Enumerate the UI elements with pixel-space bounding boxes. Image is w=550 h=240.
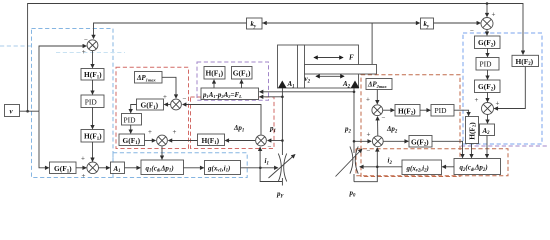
svg-text:+: + — [82, 48, 86, 56]
block G(F1) mid upper — [137, 99, 164, 111]
cylinder rod — [305, 65, 377, 75]
block PID left — [81, 95, 104, 108]
svg-text:+: + — [173, 128, 177, 136]
svg-text:+: + — [475, 96, 479, 104]
gain block k_y right — [421, 18, 434, 29]
svg-text:H(F2): H(F2) — [516, 57, 534, 67]
summing junction 6 top right — [481, 18, 493, 30]
node v split dot — [26, 110, 29, 113]
node i2 crossing dot — [376, 166, 379, 169]
block G(F2) right1 — [475, 36, 501, 49]
wire valve2 down stub — [353, 174, 355, 182]
wire junction7 to A2 — [487, 115, 489, 124]
valve 1 symbol arcs — [278, 154, 281, 182]
dashed subsystem box blue right column — [463, 33, 542, 144]
svg-text:+: + — [367, 130, 371, 138]
node p1 FL tap dot — [281, 96, 284, 99]
svg-text:+: + — [366, 96, 370, 104]
block A1 — [111, 162, 125, 174]
svg-text:H(F2): H(F2) — [398, 106, 416, 116]
summing junction 4 — [157, 135, 168, 146]
svg-text:H(F1): H(F1) — [84, 70, 102, 80]
svg-text:+: + — [492, 11, 496, 19]
wire dP1max to junction 3 — [162, 77, 176, 98]
svg-text:H(F1): H(F1) — [84, 132, 102, 142]
block load force equation — [201, 88, 259, 100]
svg-text:H(F1): H(F1) — [202, 136, 220, 146]
wire junction5 to H(F1) mid — [225, 140, 255, 142]
block A2 — [480, 124, 495, 136]
dashed subsystem box red right bottom (flow q2) — [356, 149, 508, 176]
wire A1 to q1 — [125, 167, 141, 169]
block H(F1) mid — [198, 134, 225, 146]
dashed remnant line left edge — [0, 45, 32, 47]
svg-text:−: − — [470, 27, 474, 35]
wire dP2max to junction 8 — [376, 90, 378, 104]
wire PID to H(F1) lower — [92, 108, 94, 129]
valve 2 arrow — [336, 149, 363, 177]
dashed subsystem box red right (pressure loop 2) — [361, 75, 460, 177]
svg-text:G(F2): G(F2) — [411, 137, 429, 147]
wire A2 to q2 — [486, 136, 488, 158]
wire junction9 up to junction8 — [377, 117, 379, 136]
wire PID to G(F2) lower right col — [487, 70, 489, 79]
dashed remnant line inner — [56, 52, 125, 54]
wire p1 line into junction5 — [268, 140, 283, 142]
block H(F2) tall rotated — [466, 117, 479, 144]
summing junction 8 — [372, 105, 383, 116]
dashed subsystem box red left (pressure loop 1) — [116, 67, 189, 148]
block G(F1) mid lower — [119, 134, 145, 146]
block H(F1) purple — [204, 67, 225, 80]
block q1(cd,dp1) — [141, 160, 184, 175]
svg-text:G(F2): G(F2) — [478, 38, 496, 48]
wire p1 tap into FL box lower — [260, 96, 283, 98]
hydraulic cylinder body — [278, 45, 359, 88]
port arrow A1 into cylinder — [278, 81, 287, 89]
svg-text:G(F1): G(F1) — [54, 164, 72, 174]
wire PID right to tall H(F2) — [454, 110, 469, 116]
svg-text:−: − — [183, 95, 187, 103]
wire v down branch to G(F1) — [39, 111, 49, 168]
svg-text:−: − — [382, 114, 386, 122]
wire v output — [20, 110, 40, 112]
wire position feedback from rod — [262, 23, 372, 64]
svg-text:G(F1): G(F1) — [141, 101, 159, 111]
valve1 bottom stub — [281, 178, 283, 186]
svg-text:PID: PID — [435, 106, 448, 115]
gain block k_y left — [247, 18, 263, 29]
wire H(F2) mid to PID right — [420, 109, 430, 111]
wire H(F2) down to junction 7 — [494, 67, 525, 109]
block q2(cd,dp2) — [454, 159, 501, 175]
input block v — [5, 105, 20, 117]
node i1 crossing dot — [259, 167, 262, 170]
summing junction 3 — [171, 99, 182, 110]
wire junction8 to H(F2) mid — [383, 109, 394, 111]
wire junction2 to A1 — [98, 167, 109, 169]
wire H(F1) to PID — [92, 80, 94, 94]
wire p2 tap into FL box upper — [260, 91, 354, 93]
node p1 branch dot — [281, 139, 284, 142]
block G(F1) purple — [232, 67, 253, 80]
displacement double arrow — [316, 75, 344, 77]
svg-text:G(F2): G(F2) — [478, 82, 496, 92]
wire junction3 to G(F1) mid — [164, 104, 170, 106]
svg-text:F: F — [349, 54, 354, 62]
wire junction6 to G(F2) top — [486, 30, 488, 36]
wire FL box to H(F1) purple — [213, 80, 215, 88]
block G(F2) mid — [409, 136, 432, 148]
wire G(F2) right2 to junction 7 — [487, 93, 489, 102]
svg-text:PID: PID — [124, 115, 137, 124]
block g(xv2,i2) — [402, 160, 442, 175]
block H(F1) lower left — [81, 130, 104, 143]
block dP2max — [366, 79, 392, 90]
svg-text:PID: PID — [480, 60, 493, 69]
summing junction 1 — [87, 40, 98, 51]
node p2 branch dot — [353, 140, 356, 143]
wire junction9 to G(F2) mid — [384, 140, 409, 142]
svg-text:−: − — [367, 147, 371, 155]
wire G(F1) mid to PID mid — [131, 105, 137, 113]
wire G(F2) to PID right col — [487, 49, 489, 57]
block dP1max — [135, 72, 163, 84]
wire q2 to g2 — [442, 166, 454, 168]
block H(F2) right — [512, 55, 539, 67]
dashed subsystem line purple right bottom — [461, 145, 548, 147]
svg-text:H(F1): H(F1) — [206, 69, 224, 79]
wire feedback left to k box output — [94, 23, 247, 39]
svg-text:+: + — [81, 155, 85, 163]
dashed subsystem box cyan bottom row — [113, 153, 247, 178]
block g(xv1,i1) — [205, 161, 241, 175]
svg-text:G(F1): G(F1) — [233, 69, 251, 79]
wire G(F2) mid to q2 — [432, 141, 463, 157]
block G(F2) right2 — [475, 80, 501, 93]
wire top line branch to right summing junction — [486, 4, 488, 17]
block H(F1) upper left — [81, 69, 104, 81]
wire valve1 bottom return — [260, 147, 282, 181]
node p2 FL tap dot — [353, 91, 356, 94]
summing junction 5 dp1 — [256, 135, 267, 146]
dashed subsystem box purple center (load force) — [197, 62, 269, 100]
wire v up branch to junction 1 — [39, 46, 86, 111]
wire G(F1) to junction 2 — [76, 167, 86, 169]
svg-text:+: + — [496, 100, 500, 108]
cylinder piston — [298, 45, 305, 88]
summing junction 2 — [87, 162, 99, 174]
valve 1 arrow — [269, 155, 296, 179]
block H(F2) mid — [395, 105, 420, 117]
svg-text:−: − — [84, 36, 88, 44]
port arrow A2 into cylinder — [351, 81, 360, 89]
valve 2 symbol arcs — [350, 147, 353, 174]
block PID mid right — [431, 105, 454, 117]
block PID mid — [122, 114, 142, 126]
force double arrow F — [314, 57, 343, 59]
wire G(F1) lower to junction 4 — [145, 140, 156, 142]
wire feedback right from tap to k box — [372, 22, 420, 24]
svg-text:+: + — [148, 128, 152, 136]
block PID right col — [476, 58, 499, 71]
arrowhead into left k box — [263, 22, 268, 24]
wire junction5 up to junction3 — [183, 105, 261, 135]
wire tall box to q2 — [471, 144, 473, 158]
wire p1 from cylinder down — [281, 88, 283, 155]
summing junction 7 — [482, 103, 494, 115]
svg-text:PID: PID — [85, 98, 98, 107]
svg-text:−: − — [268, 143, 272, 151]
wire H(F1) mid to junction 4 — [169, 140, 198, 142]
wire q1 to g1 — [184, 167, 204, 169]
wire p2 from cylinder down — [353, 88, 355, 153]
svg-text:G(F1): G(F1) — [123, 136, 141, 146]
wire v reference top line — [28, 4, 523, 112]
wire g2 to valve 2 — [360, 166, 402, 168]
node top branch dot — [486, 2, 489, 5]
dashed subsystem box red left2 (dp1 sensing) — [191, 97, 275, 149]
wire valve2 bottom to junction9 — [354, 148, 377, 182]
wire junction4 down to q1 — [161, 146, 163, 159]
dashed subsystem box cyan left column — [32, 29, 114, 178]
svg-text:H(F2): H(F2) — [467, 122, 476, 140]
wire FL box to G(F1) purple — [241, 80, 243, 88]
wire right k box to summing junction — [434, 22, 481, 24]
wire PID mid to G(F1) mid lower — [130, 125, 132, 133]
wire g1 to valve 1 — [241, 167, 278, 169]
summing junction 9 dp2 — [372, 136, 383, 147]
block G(F1) from v — [50, 162, 77, 175]
wire H(F1) lower to junction 2 — [92, 142, 94, 161]
wire junction1 to H(F1) — [92, 51, 94, 68]
wire p2 into junction9 — [354, 140, 371, 142]
svg-text:+: + — [82, 172, 86, 180]
